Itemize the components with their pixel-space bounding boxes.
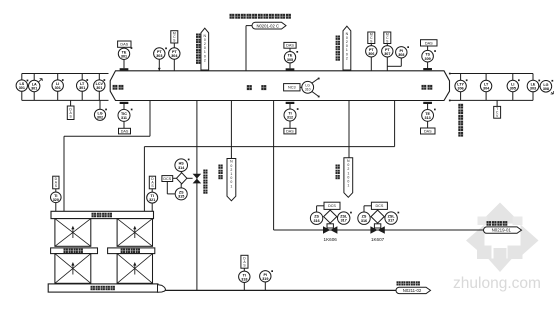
right rail end closure <box>532 74 534 101</box>
wire blowdown line to manifolds <box>274 101 484 231</box>
vessel center label <box>247 85 266 90</box>
right rail tap wire x=486.1 <box>485 74 487 101</box>
svg-text:315: 315 <box>178 195 184 199</box>
svg-text:321: 321 <box>149 198 155 202</box>
on-off valve manifold 1K606 <box>310 202 351 242</box>
exchanger lower-left shell <box>55 254 91 284</box>
svg-text:310: 310 <box>305 87 311 91</box>
right rail tap wire x=460.6 <box>460 74 462 101</box>
header note text <box>230 14 291 19</box>
level indicator LI-301 <box>52 79 64 91</box>
exchanger upper-right flow arrow <box>133 226 136 238</box>
svg-text:1K607: 1K607 <box>371 237 385 242</box>
left rail tap wire x=57.7 <box>57 74 59 101</box>
temperature element TE-305 <box>284 42 298 70</box>
line flag N0210-01 right down <box>344 158 353 198</box>
pressure indicator PI-308 <box>387 46 409 66</box>
svg-text:311: 311 <box>121 116 127 120</box>
exchanger mid-left label <box>64 249 83 253</box>
left rail tap wire x=82.2 <box>81 74 83 101</box>
svg-text:DAS: DAS <box>425 41 433 45</box>
level element LE-303 <box>527 80 540 92</box>
wire bottom drain pipe <box>166 289 397 291</box>
pressure transmitter PT-306 with MCS box <box>366 32 377 71</box>
svg-text:305: 305 <box>510 87 516 91</box>
svg-text:316: 316 <box>361 219 367 223</box>
wire header right riser <box>394 101 396 147</box>
exchanger mid-right label <box>121 249 140 253</box>
terminator label N0219-01 <box>484 227 522 233</box>
svg-text:317: 317 <box>388 219 394 223</box>
exchanger lower-left flow arrow <box>71 262 74 275</box>
DAS box below left rail <box>67 100 74 119</box>
svg-text:2: 2 <box>346 56 348 60</box>
svg-text:NC3: NC3 <box>288 86 296 90</box>
flag1 side label vertical <box>196 34 200 64</box>
svg-text:304: 304 <box>483 87 490 91</box>
line flag N0210-01 left down <box>227 159 236 201</box>
left rail tap wire x=34.2 <box>33 74 35 101</box>
level alarm LA-301 <box>27 79 43 92</box>
svg-text:301: 301 <box>121 54 127 58</box>
terminator label N0211-02 <box>396 287 431 293</box>
svg-text:316: 316 <box>314 219 320 223</box>
pressure transmitter PT-303 <box>154 48 167 71</box>
level controller LCV-301 <box>94 79 106 91</box>
vessel V-601 blowdown drum <box>110 71 449 101</box>
wire header left drop to exchanger <box>143 147 145 212</box>
svg-text:308: 308 <box>398 53 404 57</box>
svg-text:1: 1 <box>230 184 232 188</box>
svg-text:301: 301 <box>31 87 37 91</box>
level indicator LI-305 <box>507 79 520 91</box>
svg-text:309: 309 <box>425 57 431 61</box>
svg-text:DAS: DAS <box>120 43 128 47</box>
exchanger bottom label <box>91 286 115 290</box>
level switch LS-301 <box>16 80 27 91</box>
wire vessel drop to exchanger left <box>64 101 150 212</box>
svg-text:DAS: DAS <box>286 130 294 134</box>
left rail tap wire x=99.3 <box>98 74 100 101</box>
svg-text:317: 317 <box>341 219 347 223</box>
svg-text:301: 301 <box>55 86 61 90</box>
pressure transmitter PT-304 with MCS box <box>169 31 180 71</box>
temperature indicator TI-321 <box>147 176 158 211</box>
flag4 side label vertical <box>336 165 340 180</box>
line flag N0201-02 left up <box>201 28 209 71</box>
left rail bottom line <box>22 99 109 101</box>
svg-text:320: 320 <box>53 198 59 202</box>
label below right rail vertical <box>458 104 463 137</box>
svg-text:1: 1 <box>347 184 349 188</box>
exchanger mid-right tubesheet <box>108 248 155 254</box>
pressure transmitter PT-307 with MCS box <box>382 32 393 71</box>
svg-text:306: 306 <box>368 52 374 56</box>
svg-text:DCS: DCS <box>163 177 171 181</box>
svg-text:N0211-02: N0211-02 <box>403 288 422 293</box>
line flag N0201-02 mid up <box>343 26 351 71</box>
exchanger mid-left tubesheet <box>51 248 98 254</box>
svg-text:DAS: DAS <box>121 130 129 134</box>
level gauge LG-308 <box>539 80 554 94</box>
svg-text:314: 314 <box>178 166 185 170</box>
svg-text:313: 313 <box>425 116 431 120</box>
exchanger top header label <box>92 213 113 218</box>
svg-text:307: 307 <box>384 52 390 56</box>
exchanger lower-right shell <box>117 254 152 284</box>
svg-text:306: 306 <box>458 87 464 91</box>
right rail top line <box>449 73 533 75</box>
wire flag drop 1 <box>230 101 232 159</box>
valve side label vertical <box>203 170 207 194</box>
svg-text:301: 301 <box>96 86 102 90</box>
svg-text:303: 303 <box>156 54 162 58</box>
exchanger top header <box>51 211 154 218</box>
level gauge LG-310 with NC3 box <box>284 78 320 98</box>
temperature element TE-313 <box>421 102 436 134</box>
wire drain drop through control valve <box>196 101 198 291</box>
exchanger outlet cone <box>158 285 166 293</box>
svg-text:N0201-02 C: N0201-02 C <box>256 23 279 28</box>
svg-text:zhulong.com: zhulong.com <box>453 275 541 292</box>
svg-text:301: 301 <box>19 86 25 90</box>
right rail bottom line <box>449 100 533 102</box>
svg-text:DAS: DAS <box>424 129 432 133</box>
left rail end closure <box>21 74 23 101</box>
left rail top line <box>22 73 109 75</box>
exchanger lower-right flow arrow <box>133 262 136 275</box>
temperature indicator TI-320 <box>51 176 62 211</box>
svg-text:DCS: DCS <box>376 204 384 208</box>
temperature element TE-301 <box>118 41 133 70</box>
flag3 side label vertical <box>218 165 222 180</box>
svg-text:318: 318 <box>241 277 247 281</box>
svg-text:303: 303 <box>530 87 536 91</box>
vessel right label <box>422 85 433 90</box>
svg-text:2: 2 <box>204 58 206 62</box>
level glass LG-302 <box>94 100 106 120</box>
temperature controller TIC-311 <box>118 102 133 134</box>
right rail tap wire x=512.8 <box>512 74 514 101</box>
temperature indicator TI-318 <box>239 255 250 290</box>
wire flag drop 2 <box>348 101 350 158</box>
svg-text:304: 304 <box>171 54 178 58</box>
flag2 side label vertical <box>336 36 340 61</box>
svg-text:301: 301 <box>79 86 85 90</box>
svg-text:319: 319 <box>262 277 268 281</box>
level transmitter LT-304 <box>480 80 491 91</box>
pressure indicator PI-319 <box>260 270 273 290</box>
terminator note to waste water <box>397 281 420 285</box>
svg-text:302: 302 <box>97 115 103 119</box>
terminator note to recovery tower <box>487 221 508 226</box>
svg-text:1K606: 1K606 <box>324 237 338 242</box>
temperature switch TS-309 <box>421 40 438 70</box>
wire blowdown header <box>144 146 394 148</box>
svg-text:N0219-01: N0219-01 <box>492 228 512 233</box>
svg-text:DCS: DCS <box>328 204 336 208</box>
svg-text:312: 312 <box>287 116 293 120</box>
on-off valve manifold 1K607 <box>358 202 399 242</box>
svg-text:308: 308 <box>543 87 549 91</box>
level transmitter LT-301 <box>77 79 89 91</box>
level transmitter LTY-306 <box>455 79 468 91</box>
TCV box <box>494 100 501 118</box>
temperature indicator TI-312 <box>284 102 299 134</box>
wire riser to recovery header <box>246 26 252 71</box>
svg-text:DAS: DAS <box>286 44 294 48</box>
exchanger upper-right shell <box>117 219 152 247</box>
watermark zhulong logo <box>453 203 541 293</box>
line label N0201-02 C capsule <box>252 22 286 29</box>
exchanger bottom channel <box>48 284 158 292</box>
vessel left label <box>113 85 124 90</box>
control valve HV-314 group <box>162 159 201 200</box>
svg-text:305: 305 <box>287 58 293 62</box>
exchanger upper-left shell <box>55 219 91 247</box>
exchanger upper-left flow arrow <box>71 226 74 238</box>
